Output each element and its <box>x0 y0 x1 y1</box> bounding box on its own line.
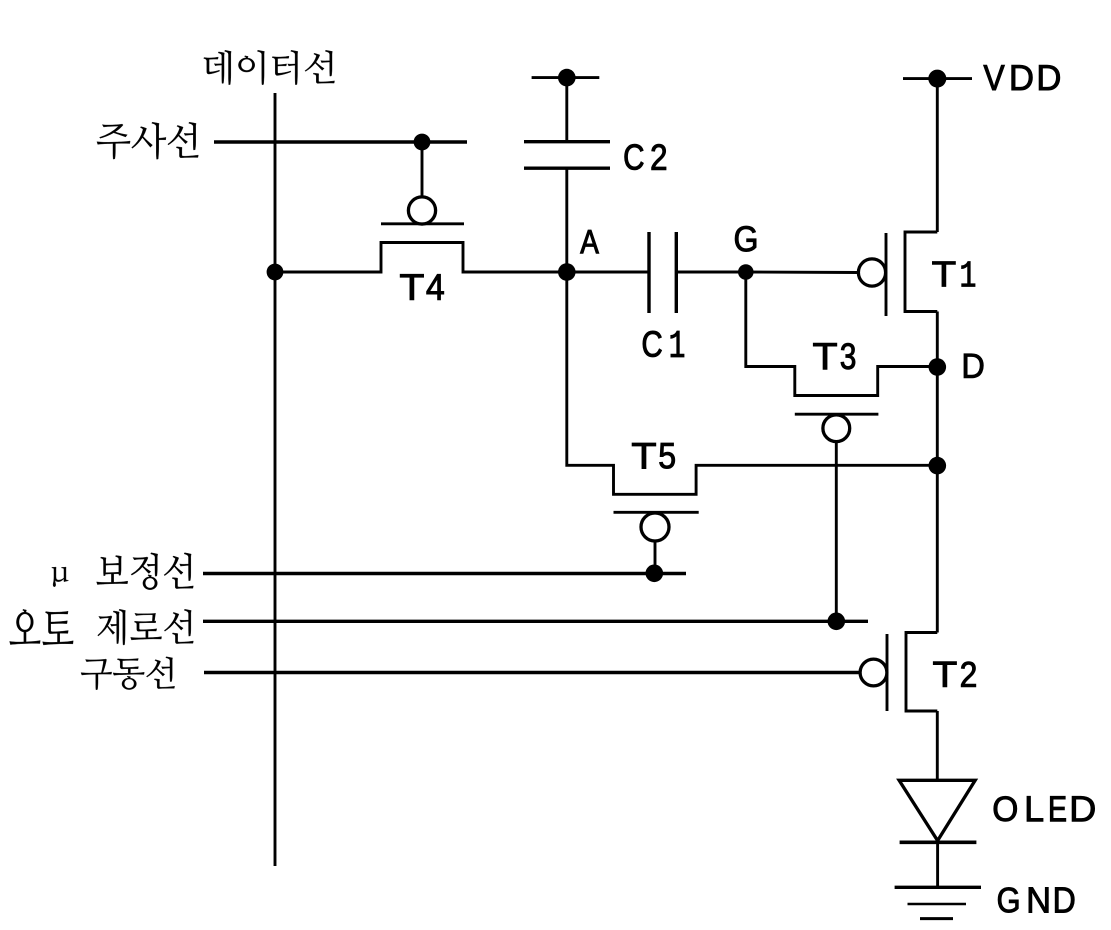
transistor T2 gate bubble <box>860 659 887 686</box>
rail T2 to OLED <box>936 711 939 781</box>
node A dot <box>558 263 576 281</box>
VDD terminal dot <box>928 70 946 88</box>
node G dot <box>738 264 754 280</box>
transistor T4 gate bubble <box>408 197 435 224</box>
transistor T2 gate bar <box>886 634 889 711</box>
transistor T1 gate wire <box>746 271 858 274</box>
label GND <box>998 887 1074 912</box>
transistor T3 gate bubble <box>823 415 850 442</box>
label D <box>964 354 983 378</box>
label 제로선 <box>98 609 194 645</box>
ground bar 3 <box>920 917 953 920</box>
capacitor C2 top terminal dot <box>558 69 576 87</box>
transistor T1 gate bar <box>885 233 888 316</box>
label C1 <box>643 331 684 357</box>
VDD rail upper <box>936 79 939 232</box>
capacitor C1 left wire <box>567 271 649 274</box>
capacitor C2 top terminal bar <box>532 76 600 79</box>
label G <box>735 226 756 252</box>
junction dot: T5 gate / μ line <box>646 565 664 583</box>
transistor T5 gate bar <box>614 511 699 514</box>
OLED cathode bar <box>900 840 977 844</box>
label OLED <box>994 796 1095 821</box>
label 데이터선 <box>204 50 335 84</box>
label VDD <box>984 65 1060 90</box>
transistor T4 gate wire <box>421 142 424 197</box>
capacitor C2 top wire <box>565 78 568 140</box>
capacitor C1 right wire <box>676 271 746 274</box>
label 주사선 <box>97 122 198 159</box>
data line (데이터선) vertical <box>274 93 277 866</box>
label 오토 <box>10 609 74 645</box>
label A <box>580 230 599 253</box>
junction dot: T3 gate / auto zero line <box>828 613 846 631</box>
transistor T4 gate bar <box>381 222 464 225</box>
label T2 <box>933 662 975 687</box>
transistor T3 source/drain path (G to D) <box>746 272 938 396</box>
transistor T3 gate bar <box>795 413 879 416</box>
junction dot: T5 lead / right rail <box>929 457 947 475</box>
label C2 <box>625 144 666 170</box>
transistor T4 channel + source/drain wire <box>275 243 567 273</box>
auto zero line (오토 제로선) <box>203 620 868 623</box>
transistor T2 channel and leads <box>906 633 937 712</box>
transistor T1 channel and leads <box>905 232 937 312</box>
ground bar 2 <box>908 903 967 905</box>
wire OLED to ground <box>936 842 939 887</box>
right rail T1 to T2 <box>936 312 939 633</box>
capacitor C2 plates <box>524 140 610 143</box>
label μ <box>52 567 68 587</box>
OLED diode triangle <box>899 780 975 840</box>
transistor T1 gate bubble <box>858 259 885 286</box>
junction dot: scan line / T4 gate <box>414 134 431 151</box>
node D dot <box>929 358 947 376</box>
scan line (주사선) <box>214 140 467 143</box>
capacitor C1 plates <box>647 232 650 313</box>
ground bar 1 <box>895 886 981 889</box>
VDD terminal bar <box>903 77 972 80</box>
label T5 <box>632 443 675 469</box>
transistor T3 gate wire <box>835 442 838 622</box>
label T4 <box>400 274 444 300</box>
label T3 <box>813 343 855 369</box>
capacitor C2 bottom wire <box>565 168 568 272</box>
junction dot: data line / T4 <box>267 264 284 281</box>
label 보정선 <box>97 553 194 590</box>
label T1 <box>932 262 975 287</box>
transistor T5 source/drain path (A to rail) <box>567 272 938 494</box>
drive line (구동선) <box>204 671 860 674</box>
label 구동선 <box>81 657 175 690</box>
mu correction line (μ 보정선) <box>203 572 686 575</box>
transistor T5 gate bubble <box>641 513 669 541</box>
transistor T5 gate wire <box>654 541 657 573</box>
